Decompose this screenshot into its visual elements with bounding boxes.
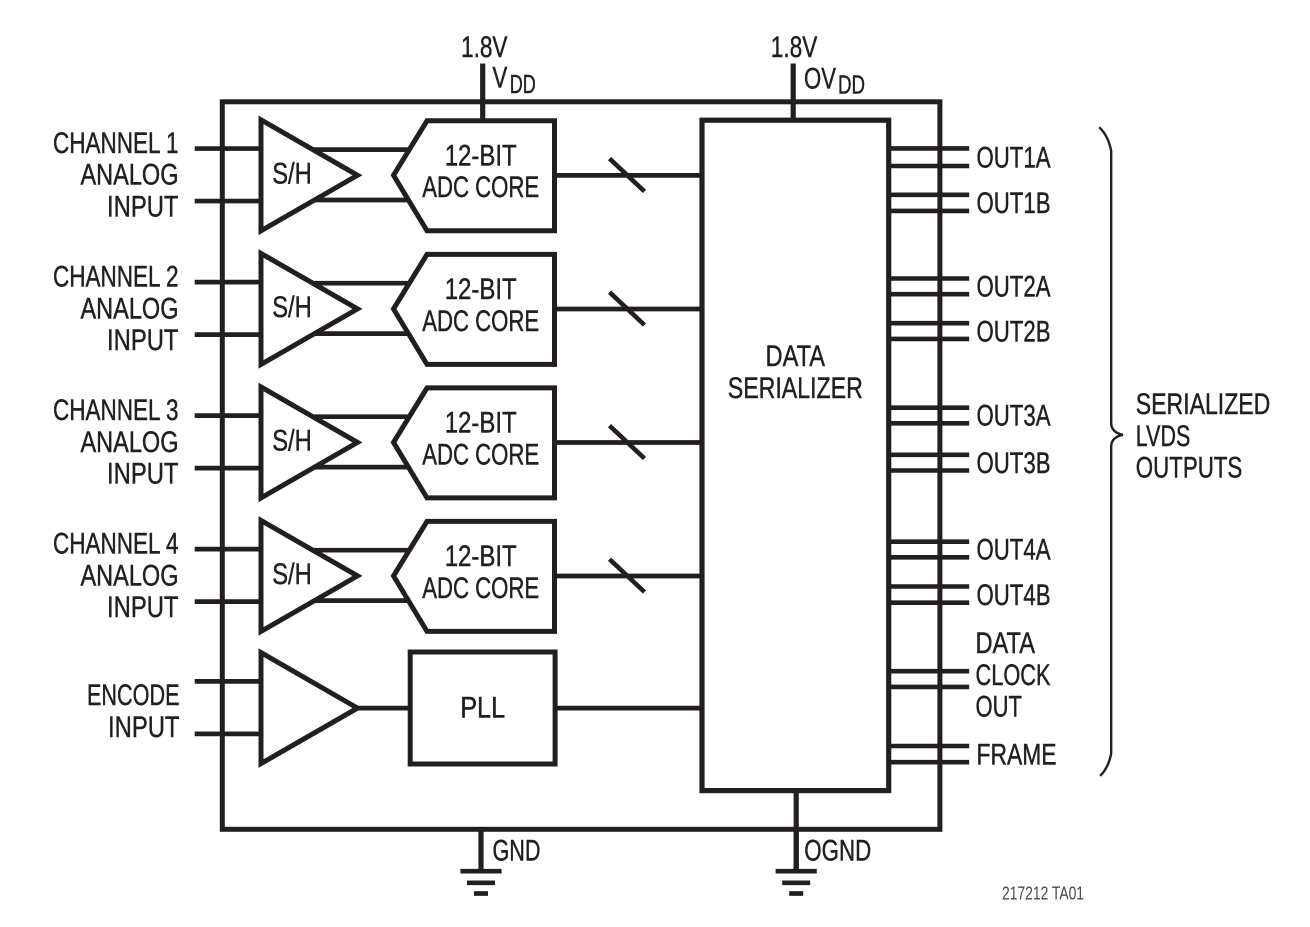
- svg-text:12-BIT: 12-BIT: [445, 140, 517, 173]
- svg-text:SERIALIZER: SERIALIZER: [728, 372, 863, 405]
- brace grouping serialized LVDS outputs: [1099, 127, 1123, 776]
- chip boundary box: [222, 102, 940, 830]
- svg-text:LVDS: LVDS: [1136, 420, 1191, 453]
- svg-text:OUT1B: OUT1B: [977, 187, 1051, 220]
- amplifier encode clock buffer: [261, 653, 358, 764]
- wire encode buffer to PLL: [350, 706, 414, 711]
- wire S/H 3 to ADC 3 differential pair (top): [300, 414, 412, 419]
- svg-text:V: V: [493, 61, 508, 94]
- bus-width slash on ADC 4 output: [610, 559, 645, 592]
- svg-text:ADC CORE: ADC CORE: [422, 171, 539, 204]
- ground GND symbol: [478, 827, 483, 869]
- svg-text:INPUT: INPUT: [108, 711, 180, 744]
- wire S/H 4 to ADC 4 differential pair (top): [300, 548, 412, 553]
- wire S/H 2 to ADC 2 differential pair (top): [300, 281, 412, 286]
- svg-text:S/H: S/H: [272, 558, 312, 591]
- block PLL: [410, 652, 555, 764]
- pin OUT4A+ LVDS output wire: [888, 539, 969, 544]
- svg-text:CLOCK: CLOCK: [976, 659, 1051, 692]
- pin OUT2A- LVDS output wire: [888, 292, 969, 297]
- wire ADC 3 data bus to serializer: [550, 440, 704, 445]
- svg-text:DD: DD: [838, 72, 865, 100]
- svg-text:OV: OV: [804, 63, 836, 96]
- svg-text:DATA: DATA: [766, 340, 826, 373]
- svg-text:SERIALIZED: SERIALIZED: [1136, 388, 1271, 421]
- svg-text:OUTPUTS: OUTPUTS: [1136, 452, 1243, 485]
- pin OUT4A- LVDS output wire: [888, 555, 969, 560]
- pin OUT4B+ LVDS output wire: [888, 584, 969, 589]
- pin OUT2B- LVDS output wire: [888, 337, 969, 342]
- net OGND stub from serializer to ground: [794, 786, 799, 869]
- pin OUT2A+ LVDS output wire: [888, 276, 969, 281]
- wire S/H 3 to ADC 3 differential pair (bottom): [300, 465, 412, 470]
- wire S/H 4 to ADC 4 differential pair (bottom): [300, 598, 412, 603]
- svg-text:CHANNEL 4: CHANNEL 4: [53, 528, 179, 561]
- node CH4+ analog input wire: [195, 547, 263, 552]
- wire ADC 1 data bus to serializer: [550, 173, 704, 178]
- svg-text:1.8V: 1.8V: [771, 31, 818, 64]
- svg-text:OUT3A: OUT3A: [977, 400, 1051, 433]
- amplifier S/H 3 (sample-and-hold): [261, 387, 358, 498]
- node CH2- analog input wire: [195, 332, 263, 337]
- svg-text:ENCODE: ENCODE: [87, 679, 180, 712]
- svg-text:CHANNEL 1: CHANNEL 1: [53, 127, 179, 160]
- svg-text:INPUT: INPUT: [107, 324, 179, 357]
- svg-text:ANALOG: ANALOG: [81, 159, 179, 192]
- block DATA SERIALIZER: [702, 120, 889, 790]
- pin DCO+ LVDS output wire: [888, 669, 969, 674]
- wire S/H 1 to ADC 1 differential pair (top): [300, 147, 412, 152]
- bus-width slash on ADC 2 output: [610, 292, 645, 325]
- svg-text:217212 TA01: 217212 TA01: [1002, 883, 1084, 904]
- bus-width slash on ADC 3 output: [610, 426, 645, 459]
- pin OUT1A- LVDS output wire: [888, 164, 969, 169]
- svg-text:OUT2B: OUT2B: [977, 315, 1051, 348]
- svg-text:ADC CORE: ADC CORE: [422, 305, 539, 338]
- node CH1+ analog input wire: [195, 146, 263, 151]
- pin OUT3A+ LVDS output wire: [888, 405, 969, 410]
- pin OUT1B+ LVDS output wire: [888, 193, 969, 198]
- wire ADC 2 data bus to serializer: [550, 307, 704, 312]
- amplifier S/H 2 (sample-and-hold): [261, 253, 358, 364]
- svg-text:ANALOG: ANALOG: [81, 292, 179, 325]
- wire ADC 4 data bus to serializer: [550, 574, 704, 579]
- svg-text:OUT4A: OUT4A: [977, 534, 1051, 567]
- wire S/H 2 to ADC 2 differential pair (bottom): [300, 331, 412, 336]
- pin OUT1A+ LVDS output wire: [888, 146, 969, 151]
- svg-text:FRAME: FRAME: [977, 738, 1057, 771]
- pin OUT3B+ LVDS output wire: [888, 452, 969, 457]
- node CH4- analog input wire: [195, 599, 263, 604]
- node CH3+ analog input wire: [195, 413, 263, 418]
- svg-text:S/H: S/H: [272, 158, 312, 191]
- block U3 12-BIT ADC CORE: [394, 388, 555, 498]
- svg-text:OUT2A: OUT2A: [977, 271, 1051, 304]
- svg-text:CHANNEL 2: CHANNEL 2: [53, 261, 179, 294]
- svg-text:OGND: OGND: [804, 835, 871, 868]
- block U1 12-BIT ADC CORE: [394, 121, 555, 231]
- svg-text:ANALOG: ANALOG: [81, 559, 179, 592]
- svg-text:INPUT: INPUT: [107, 458, 179, 491]
- svg-text:PLL: PLL: [460, 692, 505, 725]
- svg-text:12-BIT: 12-BIT: [445, 407, 517, 440]
- svg-text:DATA: DATA: [976, 627, 1036, 660]
- wire S/H 1 to ADC 1 differential pair (bottom): [300, 198, 412, 203]
- svg-text:OUT3B: OUT3B: [977, 447, 1051, 480]
- node CH3- analog input wire: [195, 466, 263, 471]
- svg-text:DD: DD: [510, 71, 536, 99]
- svg-text:OUT: OUT: [976, 691, 1023, 724]
- svg-text:12-BIT: 12-BIT: [445, 273, 517, 306]
- wire PLL clock out to serializer: [553, 706, 704, 711]
- svg-text:CHANNEL 3: CHANNEL 3: [53, 394, 179, 427]
- svg-text:ANALOG: ANALOG: [81, 426, 179, 459]
- svg-text:OUT4B: OUT4B: [977, 579, 1051, 612]
- node ENC+ encode input wire: [195, 679, 263, 684]
- svg-text:S/H: S/H: [272, 291, 312, 324]
- node CH1- analog input wire: [195, 199, 263, 204]
- pin OUT4B- LVDS output wire: [888, 600, 969, 605]
- ground OGND symbol: [794, 832, 799, 869]
- block U2 12-BIT ADC CORE: [394, 254, 555, 364]
- pin FRAME- LVDS output wire: [888, 760, 969, 765]
- pin OUT3A- LVDS output wire: [888, 421, 969, 426]
- power net VDD 1.8V stub into ADC core 1: [480, 64, 485, 124]
- bus-width slash on ADC 1 output: [610, 159, 645, 192]
- power net OVDD 1.8V stub into serializer: [791, 64, 796, 124]
- pin OUT1B- LVDS output wire: [888, 209, 969, 214]
- svg-text:GND: GND: [493, 834, 541, 867]
- node CH2+ analog input wire: [195, 280, 263, 285]
- svg-text:1.8V: 1.8V: [461, 31, 508, 64]
- svg-text:INPUT: INPUT: [107, 191, 179, 224]
- svg-text:S/H: S/H: [272, 425, 312, 458]
- pin OUT3B- LVDS output wire: [888, 468, 969, 473]
- svg-text:INPUT: INPUT: [107, 591, 179, 624]
- node ENC- encode input wire: [195, 731, 263, 736]
- amplifier S/H 4 (sample-and-hold): [261, 520, 358, 631]
- amplifier S/H 1 (sample-and-hold): [261, 120, 358, 231]
- svg-text:ADC CORE: ADC CORE: [422, 572, 539, 605]
- block U4 12-BIT ADC CORE: [394, 521, 555, 631]
- pin DCO- LVDS output wire: [888, 685, 969, 690]
- svg-text:OUT1A: OUT1A: [977, 141, 1051, 174]
- pin FRAME+ LVDS output wire: [888, 744, 969, 749]
- svg-text:12-BIT: 12-BIT: [445, 540, 517, 573]
- svg-text:ADC CORE: ADC CORE: [422, 438, 539, 471]
- pin OUT2B+ LVDS output wire: [888, 321, 969, 326]
